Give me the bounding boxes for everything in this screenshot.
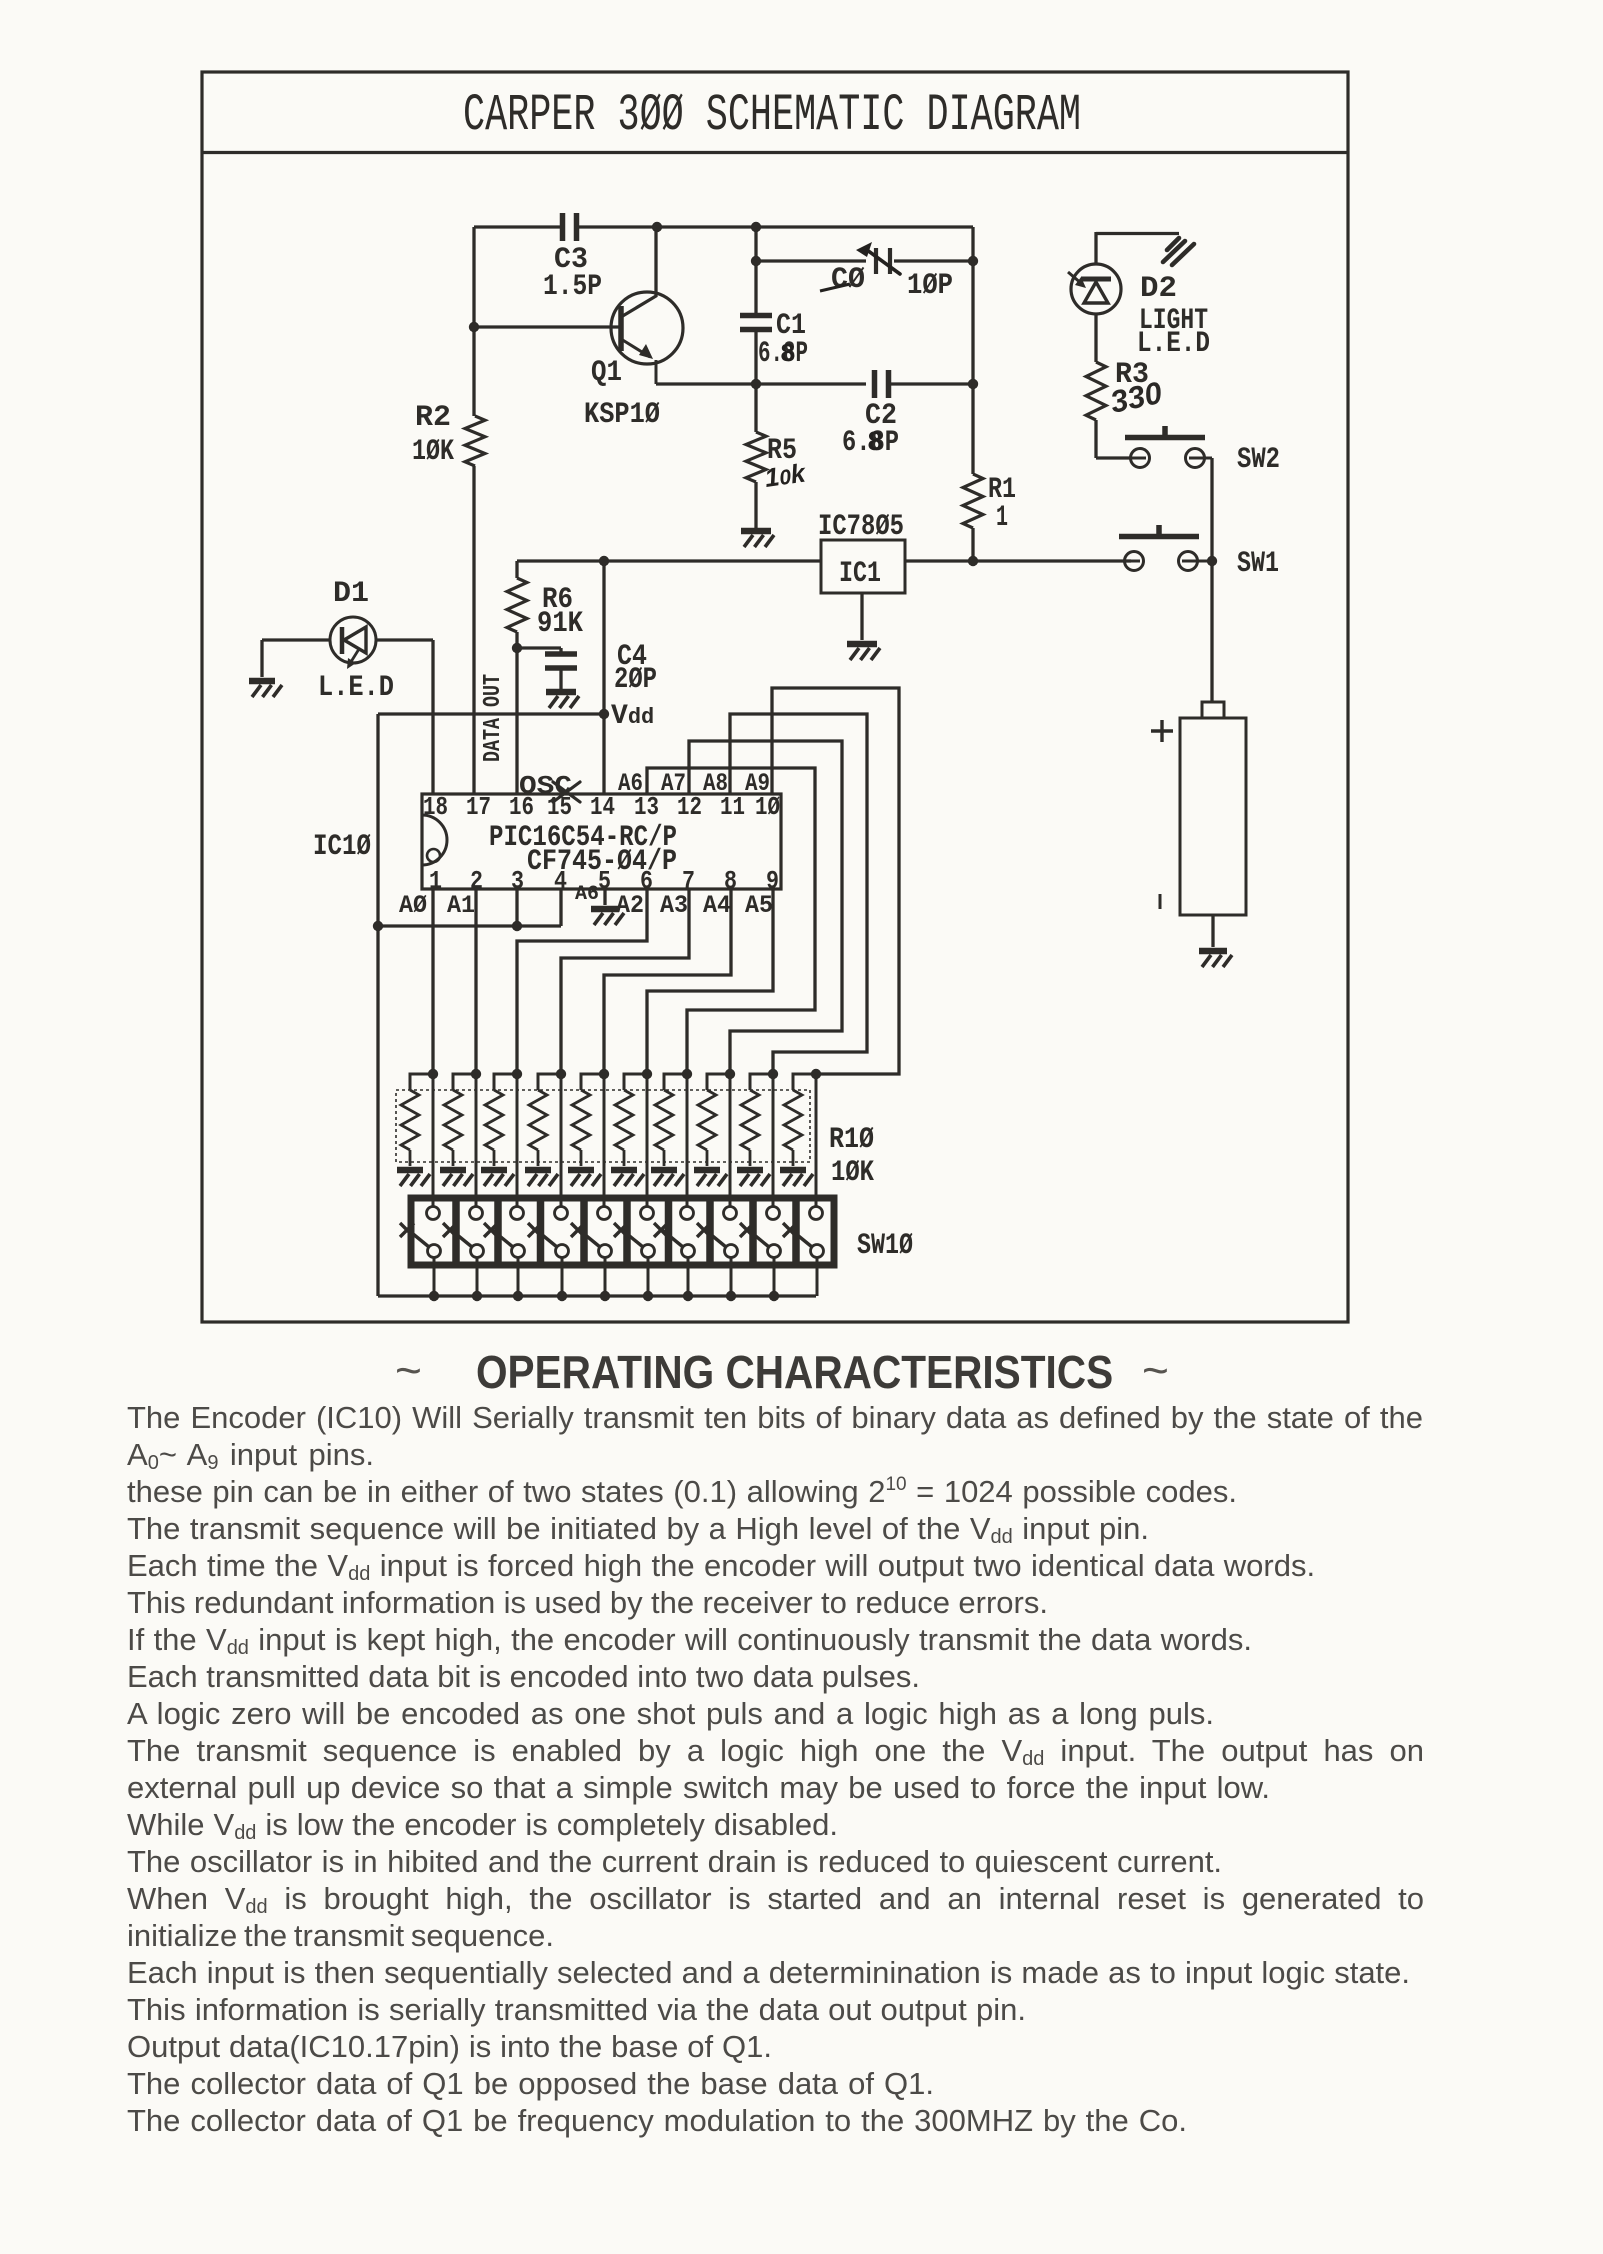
- wire pin 2 (A1) down to column 2: [474, 889, 477, 1074]
- switch SW2: [1125, 426, 1212, 468]
- wire into SW10 switch 7 top: [686, 1190, 689, 1206]
- junction column 6 node: [642, 1069, 652, 1079]
- wire into SW10 switch 8 top: [729, 1190, 732, 1206]
- wire SW10 switch 4 to bottom bus: [561, 1258, 564, 1296]
- svg-text:18: 18: [423, 792, 448, 822]
- wire SW10 switch 7 to bottom bus: [687, 1258, 690, 1296]
- wire R10 element 8 to ground: [706, 1150, 709, 1166]
- junction bottom bus: [769, 1291, 779, 1301]
- SW10 switch 8 contacts and lever: [697, 1207, 738, 1258]
- wire Q1 collector: [621, 227, 656, 317]
- svg-text:KSP1Ø: KSP1Ø: [584, 398, 660, 432]
- junction Vss bus / pin 3: [512, 921, 522, 931]
- wire into SW10 switch 5 top: [603, 1190, 606, 1206]
- wire into SW10 switch 6 top: [646, 1190, 649, 1206]
- resistor R3: [1086, 362, 1106, 420]
- wire D1 anode to ground stem: [262, 638, 330, 641]
- wire SW2 to SW1 node: [1210, 458, 1213, 561]
- wire top rail right of C3: [578, 225, 973, 228]
- wire R10 element 9 to ground: [749, 1150, 752, 1166]
- junction base node on left rail: [469, 322, 479, 332]
- svg-text:A8: A8: [703, 769, 728, 798]
- wire column 4 down to SW10: [560, 1074, 563, 1207]
- ground below R10 element 10: [780, 1170, 813, 1186]
- wire D2 top to antenna mark: [1096, 232, 1179, 235]
- wire R5 to ground: [754, 482, 757, 528]
- wire Vss bus: [378, 924, 561, 927]
- svg-text:SW1: SW1: [1237, 547, 1279, 581]
- svg-text:1: 1: [996, 501, 1008, 535]
- wire column 7 down to SW10: [686, 1074, 689, 1207]
- wire into SW10 switch 4 top: [560, 1190, 563, 1206]
- junction bottom bus: [557, 1291, 567, 1301]
- junction bottom bus: [513, 1291, 523, 1301]
- wire into SW10 switch 9 top: [772, 1190, 775, 1206]
- ground below D1: [249, 681, 282, 697]
- SW10 switch 3 contacts and lever: [484, 1207, 525, 1258]
- junction column 4 node: [556, 1069, 566, 1079]
- SW10 switch 2 contacts and lever: [443, 1207, 484, 1258]
- junction column 5 node: [599, 1069, 609, 1079]
- ground below C4: [546, 692, 579, 708]
- microcontroller IC10 box: [422, 794, 781, 889]
- LED D1 cathode bar: [340, 627, 345, 654]
- IC10 pin1 notch: [422, 815, 447, 865]
- resistor network R10 dashed outline: [396, 1090, 810, 1162]
- wire A7 from pin 12 to column 8: [689, 741, 842, 1074]
- wire pin 5 to ground: [603, 889, 606, 905]
- resistor R10 element 5: [572, 1090, 590, 1150]
- SW10 switch 9 contacts and lever: [740, 1207, 781, 1258]
- wire D1 ground stem: [260, 640, 263, 677]
- wire jog to R10 resistor 10: [793, 1074, 816, 1090]
- wire column 6 down to SW10: [646, 1074, 649, 1207]
- wire SW10 switch 1 to bottom bus: [433, 1258, 436, 1296]
- svg-text:R2: R2: [415, 401, 451, 435]
- transistor Q1 base bar: [618, 306, 624, 351]
- resistor R10 element 1: [401, 1090, 419, 1150]
- resistor R10 element 4: [529, 1090, 547, 1150]
- wire 5V rail into SW1: [1124, 559, 1131, 562]
- wire SW10 switch 6 to bottom bus: [647, 1258, 650, 1296]
- wire column 9 down to SW10: [772, 1074, 775, 1207]
- ground below pin 5: [591, 909, 624, 925]
- SW10 switch 5 contacts and lever: [571, 1207, 612, 1258]
- wire R6 bottom to IC10 pin 16: [515, 632, 518, 794]
- wire C4 top stub: [559, 648, 562, 655]
- wire Vdd rail: [378, 712, 604, 715]
- handwritten slash over C0: [856, 242, 900, 274]
- svg-text:D1: D1: [333, 577, 369, 611]
- X mark over OSC: [553, 782, 580, 802]
- wire C2 to right rail: [889, 382, 973, 385]
- labels A0-A5: [399, 891, 773, 920]
- capacitor C2: [875, 370, 889, 398]
- wire pin 4 to Vss bus: [559, 889, 562, 926]
- wire into SW10 switch 2 top: [475, 1190, 478, 1206]
- SW10 switch 1 contacts and lever: [400, 1207, 441, 1258]
- junction 5V rail / pin14 branch: [599, 556, 609, 566]
- junction column 8 node: [725, 1069, 735, 1079]
- wire SW1 node to battery: [1210, 561, 1213, 702]
- svg-text:A7: A7: [661, 769, 686, 798]
- wire jog to R10 resistor 8: [707, 1074, 730, 1090]
- ground below IC1: [847, 644, 880, 660]
- resistor R10 element 8: [698, 1090, 716, 1150]
- wire jog to R10 resistor 5: [581, 1074, 604, 1090]
- wire R1 to 5V rail: [971, 528, 974, 561]
- wire R10 element 4 to ground: [537, 1150, 540, 1166]
- svg-text:CARPER 3ØØ SCHEMATIC DIAGRAM: CARPER 3ØØ SCHEMATIC DIAGRAM: [463, 86, 1081, 145]
- svg-text:A9: A9: [745, 769, 770, 798]
- wire into SW10 switch 3 top: [516, 1190, 519, 1206]
- wire R10 element 1 to ground: [409, 1150, 412, 1166]
- LED D2 light arrow: [1068, 272, 1086, 288]
- ground below R10 element 3: [481, 1170, 514, 1186]
- svg-text:IC1: IC1: [839, 557, 881, 591]
- wire top rail left of C3: [474, 225, 561, 228]
- wire right rail top to R1: [971, 227, 974, 474]
- resistor R6: [507, 578, 527, 632]
- wire R10 element 5 to ground: [580, 1150, 583, 1166]
- junction top rail / Q1 collector: [652, 222, 662, 232]
- junction right rail / C2 line: [968, 379, 978, 389]
- title box separator line: [202, 151, 1348, 154]
- svg-text:A6: A6: [575, 883, 599, 906]
- svg-text:SW2: SW2: [1237, 443, 1280, 477]
- wire pin 1 (A0) down to column 1: [431, 889, 434, 1074]
- DIP switch SW10 outer box: [411, 1198, 834, 1265]
- wire A8 from pin 11 to column 9: [730, 714, 867, 1074]
- svg-text:AØ: AØ: [399, 891, 427, 920]
- svg-text:CØ: CØ: [831, 263, 865, 297]
- LED D1 arrow: [347, 649, 359, 669]
- resistor R1: [963, 474, 983, 528]
- wire A2 from pin 6 to column 3: [517, 889, 647, 1074]
- junction bottom bus: [472, 1291, 482, 1301]
- svg-text:L.E.D: L.E.D: [1137, 327, 1210, 361]
- ground below R10 element 2: [440, 1170, 473, 1186]
- junction bottom bus: [429, 1291, 439, 1301]
- resistor R10 element 9: [741, 1090, 759, 1150]
- wire SW10 switch 2 to bottom bus: [476, 1258, 479, 1296]
- junction column 7 node: [682, 1069, 692, 1079]
- wire R6 top lead: [515, 561, 518, 578]
- wire D1 to pin 18 corner: [376, 638, 433, 641]
- wire jog to R10 resistor 3: [494, 1074, 517, 1090]
- ground below R5: [741, 531, 774, 547]
- SW10 switch 7 contacts and lever: [654, 1207, 695, 1258]
- wire R10 element 7 to ground: [663, 1150, 666, 1166]
- wire to C4: [517, 646, 561, 649]
- voltage regulator IC1 box: [821, 540, 905, 593]
- svg-text:1ØP: 1ØP: [907, 269, 953, 303]
- ground below R10 element 5: [568, 1170, 601, 1186]
- svg-text:1ØK: 1ØK: [831, 1156, 874, 1190]
- LED D1 triangle: [344, 627, 366, 653]
- junction SW1 / battery: [1207, 556, 1217, 566]
- wire SW10 switch 8 to bottom bus: [730, 1258, 733, 1296]
- wire A3 from pin 7 to column 4: [561, 889, 689, 1074]
- junction bottom bus: [600, 1291, 610, 1301]
- ground below R10 element 8: [694, 1170, 727, 1186]
- wire pin14 branch 5V rail to IC10 pin 14: [602, 561, 605, 794]
- wire D2 cathode to R3: [1094, 314, 1097, 362]
- capacitor C4: [545, 654, 577, 668]
- wire left rail R2 bottom to IC10 pin 17 (DATA OUT): [472, 466, 475, 794]
- svg-text:L.E.D: L.E.D: [318, 671, 394, 705]
- svg-text:17: 17: [466, 792, 491, 822]
- ground below R10 element 7: [651, 1170, 684, 1186]
- ground below R10 element 6: [611, 1170, 644, 1186]
- IC10 top pin numbers 18-10: [423, 792, 780, 822]
- resistor R10 element 6: [615, 1090, 633, 1150]
- transistor Q1 body: [611, 292, 683, 364]
- resistor R10 element 7: [655, 1090, 673, 1150]
- svg-text:1: 1: [429, 866, 442, 896]
- junction R1 / 5V rail: [968, 556, 978, 566]
- wire C0 line right segment: [894, 259, 973, 262]
- resistor R10 element 3: [485, 1090, 503, 1150]
- wire IC1 ground lead: [860, 593, 863, 640]
- battery plus sign: [1151, 720, 1173, 742]
- svg-text:91K: 91K: [537, 607, 583, 641]
- svg-text:1.5P: 1.5P: [543, 270, 602, 304]
- wire from top rail down to C1: [754, 227, 757, 313]
- junction bottom bus: [643, 1291, 653, 1301]
- ground below R10 element 1: [397, 1170, 430, 1186]
- wire Q1 base lead: [474, 325, 621, 328]
- junction top rail / C0-C1 branch: [751, 222, 761, 232]
- svg-text:2ØP: 2ØP: [614, 663, 657, 697]
- junction right rail / C0 line: [968, 256, 978, 266]
- capacitor C0: [876, 248, 890, 274]
- wire 5V rail IC1 to SW1: [905, 559, 1124, 562]
- wire bottom common bus: [378, 1294, 816, 1297]
- junction bottom bus: [683, 1291, 693, 1301]
- wire jog to R10 resistor 2: [453, 1074, 476, 1090]
- LED D2 cathode bar: [1081, 277, 1111, 282]
- capacitor C3: [563, 213, 577, 241]
- svg-text:8: 8: [780, 339, 796, 369]
- wire R10 element 2 to ground: [452, 1150, 455, 1166]
- resistor R10 element 2: [444, 1090, 462, 1150]
- resistor R2: [465, 416, 485, 466]
- wire 5V rail R6 corner to IC1: [517, 559, 821, 562]
- wire R10 element 10 to ground: [792, 1150, 795, 1166]
- ground below R10 element 4: [525, 1170, 558, 1186]
- LED D2 body: [1071, 264, 1121, 314]
- capacitor C1: [740, 316, 772, 330]
- wire long left rail Vdd to bottom bus: [376, 714, 379, 1296]
- wire C0 line left segment: [756, 259, 866, 262]
- svg-text:A5: A5: [745, 891, 773, 920]
- LED D1 body: [330, 617, 376, 663]
- wire down to IC10 pin 18: [431, 640, 434, 794]
- wire pin 3 to Vss bus: [515, 889, 518, 926]
- svg-text:1ØK: 1ØK: [412, 435, 454, 469]
- SW10 cell divider bars: [456, 1198, 796, 1265]
- svg-text:8: 8: [867, 428, 884, 459]
- wire A6 from pin 13 to column 7: [647, 768, 815, 1074]
- junction column 1 node: [428, 1069, 438, 1079]
- wire SW10 switch 10 to bottom bus: [816, 1258, 819, 1296]
- svg-text:IC1Ø: IC1Ø: [313, 830, 371, 864]
- junction column 10 node: [811, 1069, 821, 1079]
- wire R10 element 3 to ground: [493, 1150, 496, 1166]
- wire A9 from pin 10 to column 10: [772, 688, 899, 1074]
- wire column 2 down to SW10: [475, 1074, 478, 1207]
- labels A6-A9: [618, 769, 770, 798]
- junction column 3 node: [512, 1069, 522, 1079]
- wire battery to ground: [1211, 915, 1214, 947]
- resistor R10 element 10: [784, 1090, 802, 1150]
- wire left rail top (C3 left to R2): [472, 227, 475, 416]
- battery positive terminal: [1202, 702, 1224, 718]
- wire C4 to ground: [559, 668, 562, 689]
- ground below R10 element 9: [737, 1170, 770, 1186]
- IC10 bottom pin numbers 1-9: [429, 866, 779, 896]
- wire column 1 down to SW10: [432, 1074, 435, 1207]
- svg-text:D2: D2: [1140, 272, 1177, 306]
- svg-text:A1: A1: [447, 891, 475, 920]
- wire A4 from pin 8 to column 5: [604, 889, 731, 1074]
- svg-text:SW1Ø: SW1Ø: [857, 1229, 913, 1263]
- switch SW1: [1119, 525, 1212, 571]
- wire A5 from pin 9 to column 6: [647, 889, 773, 1074]
- heading OPERATING CHARACTERISTICS: [476, 1345, 1113, 1399]
- antenna / stub mark at D2 wire end: [1163, 238, 1194, 265]
- wire into SW10 switch 1 top: [432, 1190, 435, 1206]
- svg-text:Vdd: Vdd: [611, 701, 654, 732]
- battery body: [1180, 718, 1246, 915]
- svg-text:OSC: OSC: [519, 771, 572, 801]
- wire into SW10 switch 10 top: [815, 1190, 818, 1206]
- wire jog to R10 resistor 4: [538, 1074, 561, 1090]
- svg-text:A6: A6: [618, 769, 643, 798]
- wire emitter line to C2: [656, 382, 866, 385]
- transistor Q1 emitter with arrow: [621, 339, 656, 384]
- battery minus mark: [1159, 894, 1162, 909]
- junction column 9 node: [768, 1069, 778, 1079]
- wire column 10 down to SW10: [815, 1074, 818, 1207]
- IC10 pin1 index circle: [427, 849, 440, 862]
- junction C0 branch: [751, 256, 761, 266]
- wire SW10 switch 9 to bottom bus: [773, 1258, 776, 1296]
- svg-text:A4: A4: [703, 891, 731, 920]
- wire column 5 down to SW10: [603, 1074, 606, 1207]
- svg-text:R1Ø: R1Ø: [829, 1123, 874, 1157]
- wire jog to R10 resistor 7: [664, 1074, 687, 1090]
- resistor R5: [746, 432, 766, 482]
- wire SW10 switch 3 to bottom bus: [517, 1258, 520, 1296]
- wire column 3 down to SW10: [516, 1074, 519, 1207]
- wire jog to R10 resistor 9: [750, 1074, 773, 1090]
- LED D2 triangle: [1084, 282, 1108, 303]
- junction Vdd node: [599, 709, 609, 719]
- svg-text:A2: A2: [616, 891, 644, 920]
- wire D2 top lead: [1094, 232, 1097, 264]
- SW10 switch 4 contacts and lever: [528, 1207, 569, 1258]
- wire jog to R10 resistor 1: [410, 1074, 433, 1090]
- wire SW10 switch 5 to bottom bus: [604, 1258, 607, 1296]
- SW10 switch 6 contacts and lever: [614, 1207, 655, 1258]
- svg-text:A3: A3: [660, 891, 688, 920]
- SW10 switch 10 contacts and lever: [783, 1207, 824, 1258]
- ground below battery: [1199, 951, 1232, 967]
- junction R6 / C4 branch: [512, 643, 522, 653]
- svg-text:Q1: Q1: [591, 356, 622, 390]
- wire R3 to SW2: [1094, 420, 1097, 458]
- wire into SW2 left contact: [1096, 456, 1131, 459]
- svg-text:14: 14: [590, 792, 615, 822]
- wire column 8 down to SW10: [729, 1074, 732, 1207]
- junction column 2 node: [471, 1069, 481, 1079]
- wire C1 bottom to R5: [754, 332, 757, 432]
- pen tail under C0 label: [820, 284, 850, 291]
- schematic frame border: [202, 72, 1348, 1322]
- wire jog to R10 resistor 6: [624, 1074, 647, 1090]
- junction Vss bus / left rail: [373, 921, 383, 931]
- junction bottom bus: [726, 1291, 736, 1301]
- junction emitter line / C1-R5 rail: [751, 379, 761, 389]
- wire R10 element 6 to ground: [623, 1150, 626, 1166]
- svg-text:DATA OUT: DATA OUT: [480, 674, 507, 762]
